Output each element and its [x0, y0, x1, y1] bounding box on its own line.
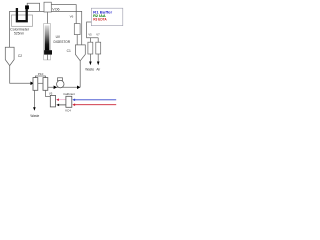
wire from colorimeter loop to VO6 (horizontal y=11.4) and down to C2 [10, 11, 44, 53]
stub to column V7 [97, 38, 99, 43]
wire C2 outlet to pump P10 [10, 66, 31, 84]
valve V6 [74, 24, 80, 35]
svg-text:Waste: Waste [30, 114, 39, 118]
pump P10 bracket [35, 76, 45, 78]
svg-text:R3 EDTA: R3 EDTA [93, 18, 107, 22]
svg-text:C1: C1 [67, 49, 71, 53]
wire right pump module to valve V5 [45, 90, 50, 96]
UV digestor base stub [47, 55, 49, 60]
waste line from left column [89, 54, 91, 62]
valve VC4 [66, 96, 72, 107]
svg-text:C2: C2 [18, 54, 22, 58]
wire from flow-cell dot up and over to junction [27, 3, 39, 11]
black arrowhead into V5 [56, 104, 59, 107]
flow cell U-tube [17, 8, 27, 21]
blue calibrant line [75, 99, 117, 101]
connector dot on flow cell [25, 5, 29, 9]
wire VO6 bottom to UV digestor [47, 12, 49, 24]
waste arrowhead [89, 62, 92, 66]
svg-text:V7: V7 [96, 32, 100, 36]
blue arrowhead into VC4 [72, 99, 75, 102]
svg-text:Calibrant: Calibrant [63, 92, 75, 96]
pump module right [43, 78, 48, 91]
svg-text:VO6: VO6 [52, 7, 59, 11]
wire between pump modules [38, 82, 43, 84]
column V7 [96, 42, 101, 54]
UV digestor base block [44, 50, 52, 54]
air arrowhead [97, 62, 100, 66]
flow arrowhead at C1 riser [77, 86, 80, 90]
debubbler head [58, 78, 63, 81]
red calibrant line [75, 104, 117, 106]
pump module left [33, 78, 38, 91]
column V5 [88, 42, 93, 54]
reagent legend box [91, 8, 123, 26]
vessel C1 [75, 45, 85, 61]
leader wire from legend to columns [87, 22, 99, 38]
svg-text:V5: V5 [49, 92, 53, 96]
valve VO6 [44, 2, 51, 12]
flow arrowhead before pump circle [54, 86, 57, 90]
pink carrier line into V5 [59, 99, 67, 101]
stub to column V5 [89, 38, 91, 43]
valve V5 (injection) [50, 95, 55, 107]
wire V6 to C1 [76, 35, 78, 50]
svg-text:DIGESTOR: DIGESTOR [54, 40, 71, 44]
wire C1 outlet down [79, 61, 81, 88]
debubbler circle [57, 80, 64, 87]
vessel C2 [5, 47, 14, 65]
svg-text:V6: V6 [70, 15, 74, 19]
arrowhead into P10 [30, 82, 34, 86]
svg-text:Waste: Waste [85, 67, 94, 71]
UV digestor outline [44, 24, 51, 60]
svg-text:525nm: 525nm [14, 31, 24, 35]
svg-text:V5: V5 [88, 32, 92, 36]
waste arrowhead [33, 107, 36, 111]
svg-text:P10: P10 [38, 72, 44, 76]
air line from right column [97, 54, 99, 62]
red arrowhead into VC4 [72, 103, 75, 106]
wire VO6 right to vessel C1 [51, 11, 81, 50]
red arrowhead into V5 [56, 98, 59, 101]
main flow line to C1 riser [48, 86, 80, 88]
waste line from left pump module [33, 90, 35, 108]
wire VO6 top to valve V6 [51, 5, 76, 24]
svg-text:VC4: VC4 [65, 108, 71, 112]
colorimeter box [12, 15, 33, 26]
black sample line into V5 [59, 104, 66, 106]
